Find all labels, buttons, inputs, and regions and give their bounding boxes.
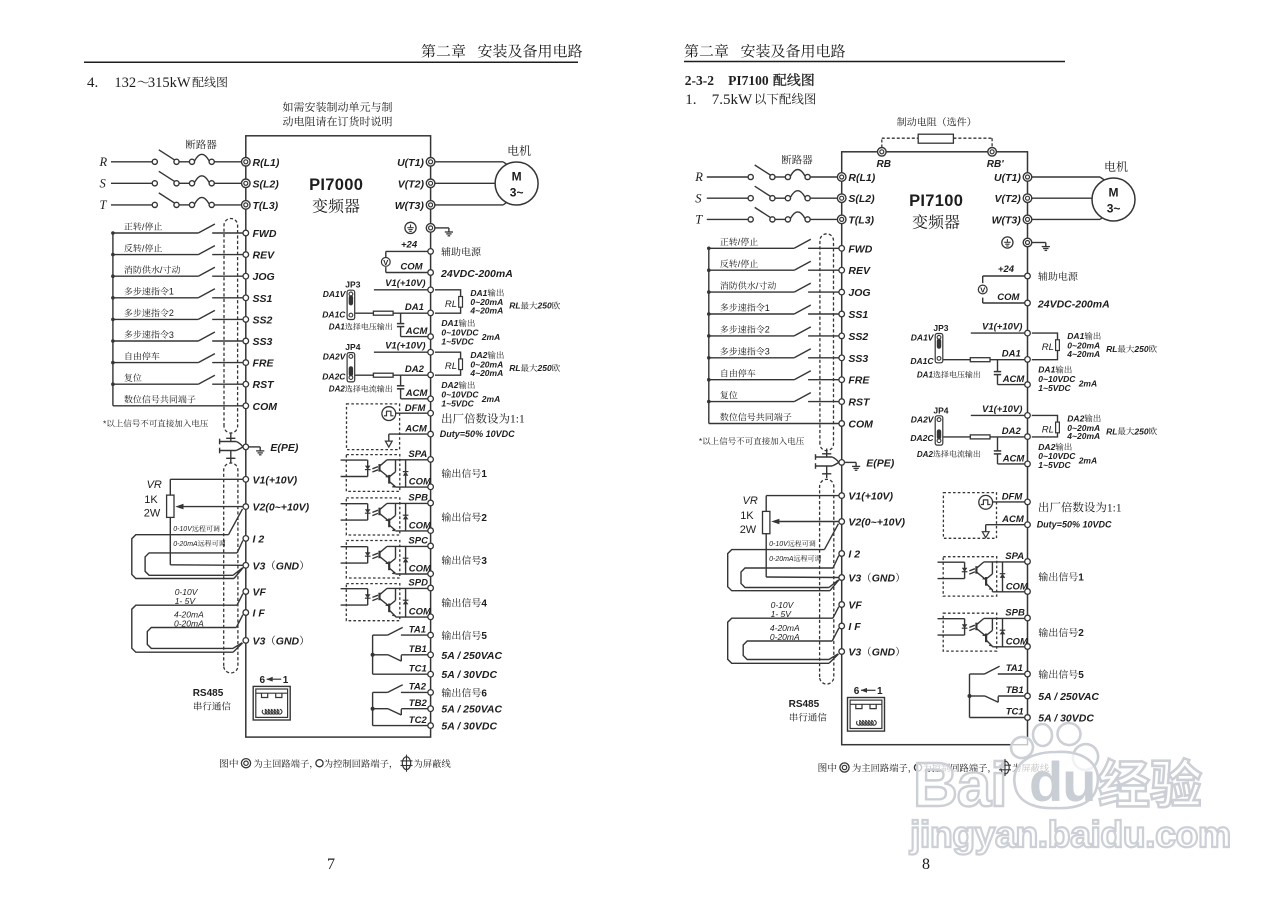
- svg-text:V3: V3: [848, 647, 861, 659]
- motor M 3~: [1092, 161, 1135, 221]
- svg-text:5: 5: [481, 631, 487, 642]
- terminal COM (SPA): [409, 477, 434, 490]
- svg-text:U(T1): U(T1): [994, 172, 1021, 184]
- svg-text:RB: RB: [877, 159, 891, 170]
- terminal VF: [243, 587, 267, 599]
- svg-text:SPC: SPC: [408, 536, 428, 547]
- svg-text:ACM: ACM: [1002, 453, 1026, 464]
- svg-text:6: 6: [260, 675, 266, 686]
- svg-text:0-20mA: 0-20mA: [769, 556, 794, 563]
- label factory ratio: [440, 413, 525, 439]
- svg-text:I F: I F: [848, 621, 861, 633]
- terminal W(T3): [992, 214, 1032, 226]
- digital input 消防供水/寸动: [709, 281, 839, 292]
- svg-text:jingyan.baidu.com: jingyan.baidu.com: [909, 813, 1231, 855]
- terminal V1 feed DA1: [428, 287, 434, 293]
- shield drain to E(PE): [816, 449, 895, 479]
- RJ45 connector RS485: [253, 675, 290, 720]
- terminal TB1: [1006, 685, 1031, 699]
- terminal FWD: [839, 243, 873, 255]
- shield of analog input cable: [224, 463, 238, 673]
- svg-text:2: 2: [765, 325, 770, 335]
- optocoupler output SPA: [341, 455, 428, 492]
- optocoupler output SPA: [938, 557, 1025, 596]
- shield drain to E(PE): [220, 433, 299, 463]
- breaker pole R: [694, 165, 837, 184]
- terminal COM (SPB): [1006, 636, 1031, 649]
- label 断路器 (circuit breaker): [186, 139, 217, 149]
- terminal V(T2): [995, 193, 1032, 205]
- wires inverter to motor: [435, 162, 510, 205]
- DFM pulse output block: [347, 404, 428, 450]
- label VF input ranges: [771, 600, 795, 619]
- svg-text:V: V: [980, 285, 985, 294]
- label output signal 2: [1039, 628, 1085, 639]
- braking resistor RB-RB1 dashed link: [882, 134, 992, 147]
- terminal SS1: [243, 293, 273, 305]
- svg-text:TB1: TB1: [409, 644, 427, 655]
- svg-text:TA1: TA1: [1006, 663, 1023, 674]
- svg-text:1: 1: [481, 469, 487, 480]
- svg-text:V(T2): V(T2): [398, 178, 425, 190]
- terminal ACM (DA1): [1002, 374, 1031, 387]
- page 7 section title 4. 132~315kW wiring diagram: [87, 75, 227, 91]
- digital input 多步速指令3: [709, 347, 839, 358]
- terminal S(L2): [837, 193, 875, 205]
- svg-text:1K: 1K: [740, 510, 754, 522]
- svg-text:1:1: 1:1: [1107, 502, 1122, 514]
- svg-text:RL: RL: [1042, 424, 1054, 435]
- digital input 多步速指令2: [113, 308, 243, 319]
- V1(+10V) feed wire for DA2: [971, 404, 1025, 416]
- svg-text:DA2C: DA2C: [910, 433, 934, 443]
- svg-text:V: V: [383, 258, 388, 267]
- terminal TA2: [409, 682, 434, 696]
- terminal RB: [877, 148, 891, 171]
- svg-text:S: S: [100, 177, 107, 191]
- svg-text:2mA: 2mA: [1078, 456, 1097, 466]
- terminal T(L3): [837, 214, 874, 226]
- svg-text:GND: GND: [276, 635, 300, 647]
- svg-text:ACM: ACM: [405, 388, 429, 399]
- V1(+10V) feed wire for DA1: [971, 322, 1025, 334]
- terminal TC2: [409, 715, 434, 729]
- digital input common bus: [707, 247, 711, 424]
- RJ45 connector RS485: [848, 686, 885, 731]
- svg-text:DA1C: DA1C: [910, 356, 934, 366]
- label IF input ranges: [174, 610, 204, 629]
- terminal COM (aux): [1025, 300, 1031, 306]
- load resistor RL for DA1: [1032, 333, 1060, 360]
- svg-text:COM: COM: [848, 419, 873, 431]
- terminal COM: [839, 419, 873, 431]
- label 断路器 (circuit breaker): [782, 155, 813, 165]
- labels relay 2 ratings: [441, 688, 502, 733]
- capacitor DA2-ACM: [994, 437, 1025, 464]
- svg-text:1~5VDC: 1~5VDC: [1038, 460, 1071, 470]
- terminal COM (aux): [428, 270, 434, 276]
- svg-text:R(L1): R(L1): [848, 172, 875, 184]
- digital input 多步速指令1: [113, 287, 243, 298]
- svg-text:ACM: ACM: [404, 424, 428, 435]
- load resistor RL for DA1: [435, 290, 463, 313]
- V1(+10V) feed wire for DA2: [374, 341, 428, 353]
- legend main/control terminals: [819, 759, 1049, 776]
- terminal V3 (GND): [839, 573, 899, 585]
- terminal V3 (GND) lower: [839, 647, 899, 659]
- svg-text:JOG: JOG: [848, 287, 870, 299]
- terminal V1 feed DA1: [1025, 330, 1031, 336]
- label 0-10V remote adjustable: [769, 540, 815, 548]
- svg-text:du: du: [1029, 750, 1095, 813]
- terminal SS1: [839, 309, 869, 321]
- svg-text:24VDC-200mA: 24VDC-200mA: [1037, 298, 1110, 310]
- svg-text:3: 3: [481, 556, 487, 567]
- svg-text:PI7000: PI7000: [309, 176, 363, 194]
- svg-text:W(T3): W(T3): [395, 200, 425, 212]
- svg-text:V1(+10V): V1(+10V): [385, 278, 425, 289]
- svg-text:1~5VDC: 1~5VDC: [441, 398, 474, 408]
- svg-text:250: 250: [537, 363, 552, 373]
- digital input 反转/停止: [113, 243, 243, 254]
- terminal V1 feed DA2: [1025, 413, 1031, 419]
- terminal IF: [243, 608, 265, 620]
- terminal U(T1): [397, 157, 435, 169]
- label VF input ranges: [175, 587, 199, 606]
- label PI7000: [309, 176, 363, 213]
- aux power supply +24/COM with voltmeter: [381, 240, 427, 273]
- breaker pole S: [100, 171, 242, 190]
- optocoupler output SPB: [938, 613, 1025, 651]
- terminal TB2: [409, 698, 434, 712]
- label 0-20mA remote adjustable: [769, 555, 821, 563]
- label DA1 output ranges: [441, 288, 560, 347]
- terminal FRE: [243, 358, 274, 370]
- page 8 running head: [684, 44, 1065, 62]
- breaker pole T: [100, 193, 242, 212]
- wires inverter to motor: [1032, 177, 1107, 219]
- terminal SS3: [839, 353, 869, 365]
- svg-text:PI7100: PI7100: [909, 192, 963, 210]
- svg-text:ACM: ACM: [1001, 514, 1025, 525]
- svg-text:RL: RL: [445, 299, 457, 310]
- optocoupler output SPC: [341, 541, 428, 579]
- svg-text:V(T2): V(T2): [995, 193, 1022, 205]
- wire loop V2 remote: [132, 535, 234, 579]
- svg-text:S(L2): S(L2): [848, 193, 875, 205]
- svg-text:DA2V: DA2V: [323, 352, 347, 362]
- svg-text:DFM: DFM: [1002, 492, 1024, 503]
- relay output 1 contacts: [968, 666, 1025, 717]
- svg-text:FWD: FWD: [848, 243, 872, 255]
- svg-text:SPB: SPB: [1005, 608, 1025, 619]
- terminal TA1: [1006, 663, 1031, 677]
- capacitor DA1-ACM: [994, 360, 1025, 385]
- svg-text:DA2: DA2: [405, 364, 425, 375]
- label factory ratio: [1037, 502, 1122, 530]
- svg-text:JP4: JP4: [345, 342, 360, 352]
- terminal DA1: [1002, 349, 1030, 363]
- svg-text:COM: COM: [400, 262, 423, 273]
- svg-text:JOG: JOG: [253, 271, 275, 283]
- label 0-20mA remote adjustable: [173, 540, 225, 548]
- svg-text:RL: RL: [1042, 342, 1054, 353]
- svg-text:24VDC-200mA: 24VDC-200mA: [440, 268, 513, 280]
- terminal I2: [839, 549, 860, 561]
- svg-text:ACM: ACM: [405, 326, 429, 337]
- relay output 1 contacts: [371, 627, 428, 674]
- note: signals must not be connected to voltage: [103, 419, 208, 429]
- digital input 正转/停止: [709, 237, 839, 248]
- terminal TC1: [1006, 707, 1031, 721]
- svg-text:VF: VF: [848, 600, 862, 612]
- terminal V2(0~+10V): [243, 502, 310, 514]
- svg-text:SS1: SS1: [848, 309, 868, 321]
- svg-text:2mA: 2mA: [481, 332, 500, 342]
- svg-text:5A / 250VAC: 5A / 250VAC: [1038, 691, 1099, 703]
- svg-text:PI7100: PI7100: [728, 73, 769, 88]
- label braking resistor optional: [897, 117, 970, 126]
- svg-text:V1(+10V): V1(+10V): [253, 474, 298, 486]
- watermark jingyan chars: [1099, 758, 1201, 807]
- terminal FWD: [243, 228, 277, 240]
- svg-text:132: 132: [114, 75, 136, 91]
- digital input 多步速指令3: [113, 330, 243, 341]
- jumper JP3: [910, 323, 980, 380]
- label 0-10V remote adjustable: [173, 525, 219, 533]
- svg-text:V1(+10V): V1(+10V): [982, 322, 1022, 333]
- svg-text:2W: 2W: [144, 508, 161, 520]
- label output signal 2: [442, 512, 488, 523]
- terminal ACM (DA1): [405, 326, 434, 339]
- label PI7100: [909, 192, 963, 229]
- page 8 subtitle 1. 7.5kW below: [685, 92, 815, 108]
- optocoupler output SPD: [341, 584, 428, 621]
- label output signal 1: [442, 469, 488, 480]
- svg-text:I 2: I 2: [253, 533, 265, 545]
- svg-text:VR: VR: [147, 479, 162, 491]
- svg-text:SS2: SS2: [253, 314, 273, 326]
- svg-text:4~20mA: 4~20mA: [1066, 431, 1100, 441]
- svg-text:V1(+10V): V1(+10V): [982, 404, 1022, 415]
- svg-text:5A / 250VAC: 5A / 250VAC: [441, 704, 502, 716]
- svg-text:V3: V3: [848, 573, 861, 585]
- svg-text:RST: RST: [253, 379, 276, 391]
- terminal RB1: [987, 148, 1004, 171]
- svg-text:GND: GND: [872, 573, 896, 585]
- svg-text:Duty=50% 10VDC: Duty=50% 10VDC: [440, 429, 515, 439]
- terminal JOG: [839, 287, 871, 299]
- svg-text:W(T3): W(T3): [992, 214, 1022, 226]
- svg-text:S: S: [695, 191, 702, 205]
- shield of digital input cable: [224, 218, 238, 433]
- svg-text:FRE: FRE: [253, 358, 275, 370]
- motor M 3~: [495, 145, 538, 205]
- svg-text:TB1: TB1: [1006, 685, 1024, 696]
- svg-text:I F: I F: [253, 608, 266, 620]
- earth terminal with protective earth symbol: [1002, 237, 1050, 251]
- wire loop IF: [147, 628, 236, 649]
- svg-text:SS3: SS3: [253, 336, 273, 348]
- svg-text:DA2C: DA2C: [322, 371, 346, 381]
- terminal +24: [1025, 273, 1031, 279]
- svg-text:TB2: TB2: [409, 698, 428, 709]
- terminal V1(+10V): [243, 474, 298, 486]
- svg-text:7: 7: [327, 856, 335, 873]
- svg-text:2: 2: [1078, 628, 1084, 639]
- wire loop IF: [743, 641, 832, 660]
- svg-text:DA2: DA2: [917, 450, 934, 459]
- page 7 running head: [84, 44, 582, 63]
- terminal TC1: [409, 663, 434, 677]
- terminal S(L2): [242, 178, 280, 190]
- label output signal 1: [1039, 572, 1085, 583]
- svg-text:7.5kW: 7.5kW: [712, 92, 753, 108]
- digital input common bus: [111, 231, 115, 406]
- resistor DA1 output: [355, 311, 428, 315]
- svg-text:TC1: TC1: [409, 663, 427, 674]
- svg-text:Bai: Bai: [913, 751, 1006, 820]
- svg-text:4~20mA: 4~20mA: [469, 306, 503, 316]
- DFM pulse output block: [943, 493, 1024, 539]
- svg-text:TC1: TC1: [1006, 707, 1024, 718]
- svg-text:DA1: DA1: [329, 323, 346, 332]
- inverter PI7100 enclosure: [842, 152, 1028, 745]
- svg-text:E(PE): E(PE): [270, 442, 299, 454]
- svg-text:V3: V3: [253, 635, 266, 647]
- terminal COM (SPB): [409, 520, 434, 533]
- svg-text:315kW: 315kW: [148, 75, 191, 91]
- svg-text:SS1: SS1: [253, 293, 273, 305]
- svg-text:SPA: SPA: [408, 449, 427, 460]
- svg-text:RS485: RS485: [193, 688, 224, 699]
- label IF input ranges: [770, 623, 800, 642]
- svg-text:T(L3): T(L3): [848, 214, 874, 226]
- note: signals must not be connected to voltage: [699, 436, 804, 446]
- terminal DFM: [1002, 492, 1031, 505]
- wire loop VF: [132, 605, 237, 652]
- label output signal 3: [442, 555, 488, 566]
- terminal TA1: [409, 624, 434, 638]
- svg-text:2-3-2: 2-3-2: [685, 73, 714, 88]
- terminal V1(+10V): [839, 491, 894, 503]
- terminal R(L1): [242, 157, 280, 169]
- svg-text:DA1V: DA1V: [911, 332, 935, 342]
- potentiometer VR 1K 2W: [740, 495, 839, 577]
- resistor DA2 output: [355, 373, 428, 377]
- svg-text:4: 4: [481, 598, 487, 609]
- watermark jingyan.baidu.com: [909, 813, 1231, 855]
- svg-text:0-20mA: 0-20mA: [173, 541, 198, 548]
- terminal SPB: [1005, 608, 1030, 621]
- svg-text:TA1: TA1: [409, 624, 426, 635]
- svg-text:0-10V: 0-10V: [769, 541, 789, 548]
- aux power supply +24/COM with voltmeter: [978, 264, 1024, 303]
- svg-text:GND: GND: [872, 647, 896, 659]
- svg-text:8: 8: [922, 856, 930, 873]
- svg-text:2mA: 2mA: [1078, 378, 1097, 388]
- svg-text:DA2V: DA2V: [911, 415, 935, 425]
- svg-text:JP3: JP3: [933, 323, 948, 333]
- svg-text:REV: REV: [253, 250, 276, 262]
- svg-text:RB': RB': [987, 159, 1004, 170]
- breaker pole R: [99, 150, 242, 169]
- svg-text:VF: VF: [253, 587, 267, 599]
- terminal SS2: [839, 331, 869, 343]
- resistor DA1 output: [943, 358, 1024, 362]
- svg-text:U(T1): U(T1): [397, 157, 424, 169]
- svg-text:DFM: DFM: [405, 403, 427, 414]
- svg-text:5A / 250VAC: 5A / 250VAC: [441, 650, 502, 662]
- shield of digital input cable: [820, 234, 834, 451]
- svg-text:DA1: DA1: [1002, 349, 1021, 360]
- svg-text:V1(+10V): V1(+10V): [848, 491, 893, 503]
- terminal V3 (GND): [243, 560, 303, 572]
- wire loop I2 remote: [741, 568, 833, 588]
- svg-text:4~20mA: 4~20mA: [469, 368, 503, 378]
- terminal COM: [243, 401, 277, 413]
- svg-text:250: 250: [537, 301, 552, 311]
- svg-text:Duty=50% 10VDC: Duty=50% 10VDC: [1037, 520, 1112, 530]
- watermark Baidu text: [913, 750, 1095, 820]
- svg-text:3: 3: [765, 347, 770, 357]
- svg-text:VR: VR: [743, 495, 758, 507]
- relay output 2 contacts: [371, 685, 428, 726]
- svg-text:T: T: [100, 198, 108, 212]
- svg-text:TC2: TC2: [409, 715, 428, 726]
- svg-text:R: R: [694, 170, 703, 184]
- svg-text:SPA: SPA: [1005, 551, 1024, 562]
- svg-text:1: 1: [765, 303, 770, 313]
- digital input 自由停车: [113, 352, 243, 363]
- svg-text:6: 6: [481, 688, 487, 699]
- label RS485 serial comm: [193, 688, 231, 710]
- terminal ACM (DFM): [1001, 514, 1030, 527]
- label RS485 serial comm: [789, 699, 827, 721]
- digital input 数位信号共同端子: [709, 413, 839, 424]
- terminal DFM: [405, 403, 434, 416]
- svg-text:SS3: SS3: [848, 353, 868, 365]
- svg-text:S(L2): S(L2): [253, 178, 280, 190]
- svg-text:T(L3): T(L3): [253, 200, 279, 212]
- digital input 复位: [113, 373, 243, 384]
- terminal R(L1): [837, 172, 875, 184]
- svg-text:SPD: SPD: [408, 578, 428, 589]
- labels relay 1 ratings: [441, 631, 502, 682]
- svg-text:DA1C: DA1C: [322, 309, 346, 319]
- load resistor RL for DA2: [1032, 415, 1060, 437]
- svg-text:RL: RL: [509, 301, 520, 311]
- wire loop VF: [728, 618, 833, 663]
- svg-text:SS2: SS2: [848, 331, 868, 343]
- svg-text:6: 6: [854, 686, 860, 697]
- svg-text:V3: V3: [253, 560, 266, 572]
- terminal JOG: [243, 271, 275, 283]
- terminal COM (SPD): [409, 607, 434, 620]
- digital input 复位: [709, 391, 839, 402]
- potentiometer VR 1K 2W: [144, 479, 243, 565]
- legend main/control terminals: [220, 755, 450, 772]
- svg-text:3~: 3~: [1107, 202, 1121, 216]
- svg-text:1: 1: [877, 686, 883, 697]
- label DA2 output ranges: [441, 350, 560, 408]
- digital input 正转/停止: [113, 222, 243, 233]
- svg-text:1.: 1.: [685, 92, 696, 108]
- svg-text:5A / 30VDC: 5A / 30VDC: [441, 721, 497, 733]
- svg-text:2mA: 2mA: [481, 394, 500, 404]
- svg-text:RL: RL: [1106, 426, 1117, 436]
- digital input 自由停车: [709, 369, 839, 380]
